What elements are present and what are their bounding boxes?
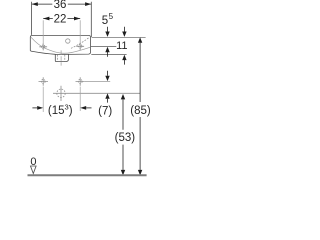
- overflow hole: [66, 39, 70, 43]
- svg-text:(153): (153): [48, 103, 73, 117]
- dimension 22 extension lines: [43, 20, 80, 44]
- svg-text:5: 5: [109, 12, 114, 21]
- dimension 36 line: [32, 3, 92, 5]
- svg-text:0: 0: [30, 156, 36, 168]
- dimension 36 arrowheads: [32, 2, 38, 6]
- dimension 11 lower arrow: [122, 55, 126, 60]
- dimension 22 arrowheads: [43, 17, 49, 21]
- fixing hole extension right: [79, 87, 81, 111]
- washbasin outline (front view): [30, 36, 90, 55]
- svg-text:(53): (53): [115, 132, 136, 144]
- dimension 15.3 right arrow: [80, 106, 86, 110]
- tap hole reference line right: [91, 45, 117, 47]
- dimension 85 line: [139, 43, 141, 170]
- drain reference line: [53, 92, 140, 94]
- svg-text:22: 22: [54, 13, 67, 25]
- dimension 53 top arrow: [121, 94, 125, 99]
- dimension 85 bottom arrow: [138, 170, 142, 176]
- tap hole cross right (front view): [76, 43, 84, 50]
- tap hole cross left (front view): [39, 43, 47, 50]
- drain hole crosshair: [57, 86, 65, 101]
- svg-text:36: 36: [54, 0, 67, 11]
- dimension 53 bottom arrow: [121, 170, 125, 176]
- fixing hole cross right (wall view): [76, 77, 85, 85]
- tap deck diagonal edge: [71, 38, 89, 49]
- svg-text:5: 5: [102, 15, 108, 27]
- fixing hole extension left: [42, 87, 44, 112]
- dimension 7 lower arrow: [105, 93, 109, 98]
- svg-text:(7): (7): [98, 105, 112, 117]
- dimension 7 upper arrow: [107, 71, 109, 76]
- dimension 11 upper arrow: [123, 27, 125, 32]
- rim reference line right: [92, 36, 146, 38]
- floor line: [28, 174, 147, 176]
- dimension 5.5 lower arrow: [105, 47, 109, 52]
- dimension 22 line: [43, 18, 80, 20]
- dimension 85 top arrow: [138, 37, 142, 42]
- basin bottom reference line right: [91, 54, 126, 56]
- dimension 36 extension lines: [32, 2, 92, 37]
- datum triangle: [31, 166, 37, 174]
- fixing hole cross left (wall view): [39, 77, 49, 85]
- dimension 5.5 upper arrow: [107, 27, 109, 32]
- drain box under basin: [55, 54, 68, 61]
- drain box hidden lines: [57, 55, 64, 62]
- drain center line: [60, 50, 62, 65]
- dimension 15.3 left arrow: [32, 107, 37, 109]
- dimension 53 line: [122, 99, 124, 170]
- svg-text:(85): (85): [130, 105, 151, 117]
- basin bowl hidden curve: [31, 37, 90, 53]
- fixing hole reference line right: [84, 81, 110, 83]
- svg-text:11: 11: [116, 40, 127, 52]
